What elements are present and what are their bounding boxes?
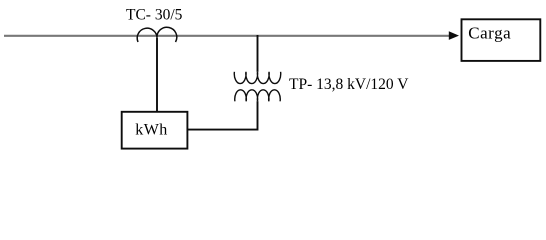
potential transformer TP primary winding (4 cups) xyxy=(234,72,280,84)
load box Carga xyxy=(462,19,541,61)
kWh meter box xyxy=(122,112,188,149)
wire: bus tap down to TP primary xyxy=(257,35,259,72)
svg-text:kWh: kWh xyxy=(135,121,168,138)
wire: main feeder bus xyxy=(4,35,450,37)
svg-text:Carga: Carga xyxy=(468,23,511,42)
svg-text:TP- 13,8 kV/120 V: TP- 13,8 kV/120 V xyxy=(289,76,409,93)
svg-text:TC- 30/5: TC- 30/5 xyxy=(126,6,183,23)
wire: kWh to TP secondary (L shape) xyxy=(187,101,257,129)
potential transformer TP secondary winding (4 arches) xyxy=(235,90,280,102)
arrowhead to load xyxy=(449,31,459,40)
wire: TC secondary down to kWh meter xyxy=(156,38,158,112)
current transformer TC (two bumps over the bus) xyxy=(137,27,177,42)
